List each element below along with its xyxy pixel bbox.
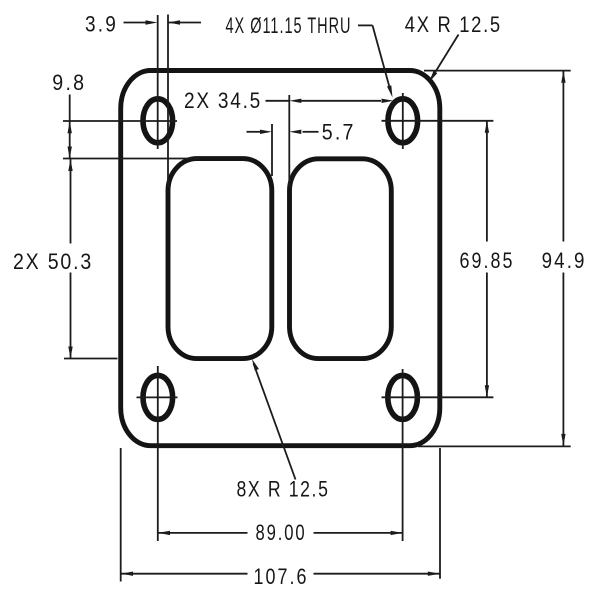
svg-text:8X R 12.5: 8X R 12.5 <box>237 477 330 502</box>
centerlines bottom-right hole <box>382 369 494 541</box>
svg-text:3.9: 3.9 <box>85 12 118 37</box>
dimension 2X 50.3 left <box>64 159 118 359</box>
centerlines top-left hole <box>63 15 177 149</box>
dimension 107.6 bottom <box>121 448 440 582</box>
svg-text:69.85: 69.85 <box>460 248 515 273</box>
centerlines bottom-left hole <box>137 366 178 541</box>
bolt hole top-left <box>143 99 173 143</box>
leader for THRU label <box>358 25 390 89</box>
svg-text:5.7: 5.7 <box>322 120 356 145</box>
svg-text:4X R 12.5: 4X R 12.5 <box>405 12 502 37</box>
leader for corner radius <box>431 35 459 80</box>
bolt hole bottom-right <box>388 375 418 419</box>
dimension 94.9 far right <box>418 71 571 447</box>
port right obround <box>290 159 392 359</box>
svg-text:2X 34.5: 2X 34.5 <box>184 88 262 113</box>
svg-text:94.9: 94.9 <box>542 248 587 273</box>
bolt hole bottom-left <box>143 375 173 419</box>
centerlines top-right hole <box>382 93 494 149</box>
svg-text:89.00: 89.00 <box>256 520 307 545</box>
dimension 3.9 top-left <box>124 15 202 188</box>
dimension 5.7 <box>247 124 319 176</box>
dimension 2X 34.5 <box>266 95 382 187</box>
dimension 69.85 right <box>486 121 488 398</box>
dimension 89.00 bottom <box>158 532 403 534</box>
svg-text:107.6: 107.6 <box>254 564 309 589</box>
leader for port radius <box>254 364 296 480</box>
dimension 9.8 left <box>63 95 200 159</box>
plate outline <box>121 71 440 446</box>
svg-text:2X 50.3: 2X 50.3 <box>13 249 93 274</box>
port left obround <box>168 159 272 359</box>
svg-text:9.8: 9.8 <box>52 70 86 95</box>
bolt hole top-right <box>388 99 418 143</box>
svg-text:4X Ø11.15 THRU: 4X Ø11.15 THRU <box>226 13 352 38</box>
